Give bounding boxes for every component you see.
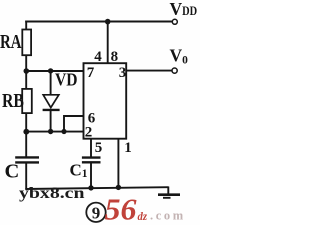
svg-text:dz: dz bbox=[138, 209, 148, 223]
node: diode anode junction bbox=[48, 68, 53, 73]
svg-text:2: 2 bbox=[85, 125, 93, 141]
svg-text:RB: RB bbox=[2, 90, 24, 112]
svg-text:V0: V0 bbox=[170, 46, 189, 67]
terminal V0 bbox=[172, 68, 177, 73]
resistor RB bbox=[22, 89, 32, 113]
capacitor C1 with pin 5 lead bbox=[82, 139, 101, 189]
svg-text:8: 8 bbox=[111, 49, 119, 65]
diode VD bbox=[43, 71, 60, 132]
IC U1 (555 timer) bbox=[84, 63, 127, 139]
capacitor C bbox=[15, 157, 39, 189]
svg-text:VDD: VDD bbox=[170, 0, 198, 19]
wire: pin 8/4 riser to VDD rail bbox=[107, 22, 109, 64]
ground bbox=[158, 187, 180, 198]
wire: node B to pin 2 bbox=[26, 131, 84, 133]
node: riser junction on VDD rail bbox=[105, 19, 111, 25]
wire: RB bottom lead down to capacitor C bbox=[25, 113, 27, 157]
wire: pin 6 elbow bbox=[64, 116, 84, 132]
node: pin1 to ground rail junction bbox=[116, 185, 121, 190]
resistor RA bbox=[22, 30, 31, 56]
svg-text:7: 7 bbox=[87, 65, 95, 81]
wire: pin 3 to V0 terminal bbox=[126, 70, 172, 72]
node A: RA / RB / pin7 junction bbox=[24, 68, 30, 74]
wire: RA bottom lead down to node B bbox=[25, 55, 27, 89]
node: C1 to ground rail junction bbox=[88, 185, 93, 190]
node: pin 6 elbow junction on pin2 wire bbox=[61, 129, 66, 134]
svg-text:C: C bbox=[5, 161, 20, 183]
wire: bottom ground rail bbox=[25, 187, 168, 189]
svg-text:VD: VD bbox=[55, 69, 78, 89]
svg-text:RA: RA bbox=[0, 31, 22, 53]
wire: top VDD rail bbox=[25, 21, 172, 23]
svg-text:5: 5 bbox=[95, 140, 103, 156]
watermark circled 9 bbox=[86, 203, 105, 223]
svg-text:4: 4 bbox=[94, 49, 102, 65]
svg-text:3: 3 bbox=[119, 65, 127, 81]
svg-text:9: 9 bbox=[92, 203, 101, 222]
wire: pin 1 lead to ground rail bbox=[117, 139, 119, 188]
terminal VDD bbox=[172, 19, 177, 24]
svg-text:ybx8.cn: ybx8.cn bbox=[19, 185, 85, 202]
wire: RA top lead bbox=[25, 21, 27, 30]
svg-text:56: 56 bbox=[105, 192, 138, 225]
node B: RB / C / pin2 junction bbox=[23, 129, 29, 135]
node: diode cathode junction on pin2 wire bbox=[48, 129, 53, 134]
svg-text:.com: .com bbox=[150, 208, 186, 222]
wire: node A to pin 7 bbox=[26, 70, 84, 72]
watermark 56dz.com bbox=[105, 192, 186, 227]
svg-text:1: 1 bbox=[124, 140, 132, 156]
